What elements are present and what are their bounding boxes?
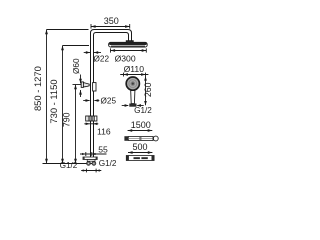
svg-text:Ø22: Ø22 [94, 55, 110, 64]
svg-text:Ø300: Ø300 [115, 54, 136, 64]
svg-text:Ø60: Ø60 [72, 58, 81, 74]
svg-text:850 - 1270: 850 - 1270 [32, 66, 43, 111]
svg-text:116: 116 [97, 127, 111, 137]
svg-text:Ø25: Ø25 [101, 96, 117, 105]
svg-text:730 - 1150: 730 - 1150 [48, 79, 59, 123]
svg-text:1500: 1500 [131, 120, 151, 130]
svg-text:G1/2: G1/2 [134, 106, 152, 115]
svg-text:260: 260 [143, 82, 153, 97]
svg-text:G1/2: G1/2 [60, 161, 78, 170]
svg-text:500: 500 [132, 142, 147, 152]
svg-text:G1/2: G1/2 [99, 159, 117, 168]
svg-text:350: 350 [104, 16, 119, 26]
svg-text:Ø110: Ø110 [124, 64, 145, 74]
svg-text:790: 790 [62, 112, 72, 127]
svg-text:55: 55 [98, 144, 108, 154]
